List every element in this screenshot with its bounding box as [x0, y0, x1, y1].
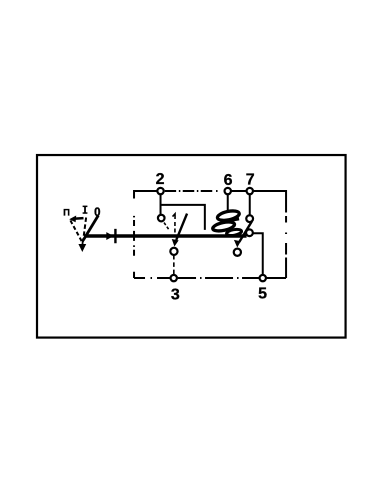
svg-text:3: 3 — [171, 286, 180, 303]
dashed wire C2 to terminal 3 — [173, 255, 175, 275]
terminal 2 — [157, 188, 163, 194]
svg-text:7: 7 — [246, 172, 255, 189]
terminal 7 — [247, 188, 253, 194]
contact C2 — [170, 248, 177, 255]
wire: branch from terminal 2 to coil — [161, 205, 205, 230]
lever position label I — [83, 206, 88, 213]
coil loop 2 — [212, 220, 235, 232]
contact A — [246, 215, 253, 222]
coil (heater spiral) loop 1 — [217, 209, 240, 222]
wire: enclosure left edge — [133, 190, 135, 278]
wire: terminal 7 down to contact A — [249, 194, 251, 215]
return arrow (points down) — [81, 240, 84, 246]
wire: terminal 2 down to fixed contact — [160, 194, 162, 215]
wire: enclosure top edge — [134, 190, 286, 192]
moving contact arm (right) — [239, 221, 252, 242]
lever dashed position II — [70, 220, 82, 241]
shaft arrow — [106, 232, 113, 240]
svg-text:6: 6 — [224, 172, 233, 189]
contact D — [234, 249, 241, 256]
lever (solid, position 0) — [83, 215, 98, 240]
shaft (mechanical link, thick line) — [84, 234, 247, 238]
wire: contact B to terminal 5 — [253, 233, 263, 274]
dashed alternate contact path — [164, 223, 170, 231]
fixed contact C1 — [158, 215, 165, 222]
moving contact arm (left) — [176, 214, 187, 241]
svg-text:5: 5 — [258, 285, 267, 302]
terminal 5 — [260, 275, 266, 281]
lever dashed position I — [83, 217, 86, 241]
shaft crossbar — [114, 229, 116, 243]
wire: enclosure bottom edge — [134, 277, 286, 279]
contact B — [246, 229, 253, 236]
rotation arrow (points left) — [74, 217, 84, 220]
wire: terminal 6 down to coil — [227, 194, 229, 211]
dashed neutral position mark — [173, 214, 176, 219]
switch enclosure boundary (dash-dot box) — [134, 190, 286, 278]
svg-text:П: П — [63, 207, 70, 218]
coil loop 3 — [226, 228, 242, 236]
wire: enclosure right edge — [285, 190, 287, 278]
terminal 6 — [225, 188, 231, 194]
coil link bar — [222, 219, 240, 222]
svg-text:2: 2 — [156, 171, 165, 188]
terminal 3 — [171, 275, 177, 281]
